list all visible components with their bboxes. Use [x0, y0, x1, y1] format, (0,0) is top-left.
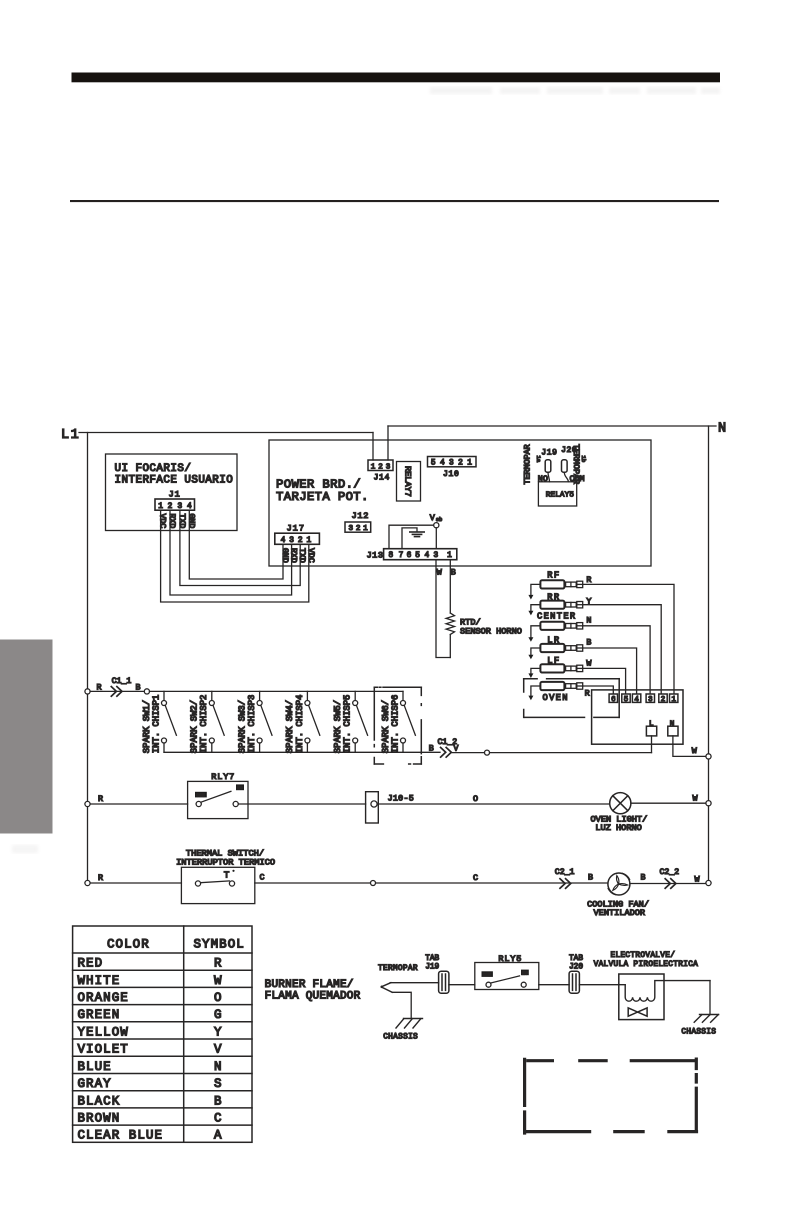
switch SPARK SW1 [162, 691, 177, 752]
svg-text:SENSOR HORNO: SENSOR HORNO [460, 626, 522, 636]
svg-text:W: W [437, 568, 443, 578]
switch SPARK SW6 [401, 691, 416, 752]
wire N to J14 pin3 [387, 426, 389, 460]
relay RLY5 NO tag [521, 970, 529, 976]
color table [73, 926, 252, 1142]
svg-text:J12: J12 [352, 511, 370, 521]
svg-text:RED: RED [78, 957, 104, 971]
wire J19 to RLY5 [449, 984, 475, 986]
svg-text:COLOR: COLOR [107, 938, 150, 952]
svg-text:RELAY5: RELAY5 [546, 491, 575, 499]
svg-text:B: B [136, 683, 141, 693]
svg-text:5: 5 [624, 696, 628, 704]
svg-text:BROWN: BROWN [78, 1112, 121, 1126]
connector C1_2 chevrons [441, 748, 452, 758]
svg-text:8: 8 [389, 552, 394, 560]
thermal switch contacts [195, 881, 200, 886]
wire spark top rail [150, 690, 404, 692]
terminal 5 [622, 694, 630, 702]
svg-text:BLACK: BLACK [78, 1094, 121, 1108]
svg-text:3: 3 [386, 463, 391, 471]
resistor RTD [446, 613, 454, 635]
relay RLY7 contacts [196, 801, 201, 806]
dashed enclosure OVEN [524, 679, 620, 718]
svg-text:6: 6 [611, 696, 615, 704]
switch SPARK SW2 [209, 691, 224, 752]
svg-text:3: 3 [449, 460, 454, 468]
lamp OVEN LIGHT [610, 793, 631, 814]
wire J20 to electrovalve [579, 984, 625, 986]
svg-text:CHASSIS: CHASSIS [681, 1028, 716, 1036]
wire RF to terminal [583, 584, 674, 694]
wire GND J1-J17 [189, 510, 283, 579]
wire fan to N [630, 883, 706, 885]
svg-text:R: R [585, 689, 590, 699]
svg-text:WHITE: WHITE [78, 974, 121, 988]
wire LR left to spark [531, 648, 540, 655]
svg-text:GND: GND [280, 548, 289, 563]
terminal block [592, 690, 683, 744]
svg-text:2: 2 [378, 463, 383, 471]
svg-text:W: W [692, 746, 698, 756]
svg-text:YELLOW: YELLOW [78, 1025, 129, 1039]
svg-text:LUZ HORNO: LUZ HORNO [595, 823, 641, 833]
wire N top [388, 425, 716, 427]
wire RXD J1-J17 [170, 510, 292, 595]
ground symbol power board [410, 532, 424, 537]
wire N terminal to bus [673, 736, 706, 757]
terminal TAB J19 [439, 971, 449, 993]
svg-text:B: B [451, 568, 456, 578]
node thermal junction [371, 881, 376, 886]
thermal switch blade [201, 881, 230, 883]
relay RLY5 box [475, 963, 539, 990]
wire L1 top [79, 432, 373, 434]
svg-text:C1_1: C1_1 [112, 677, 132, 686]
chassis ground right [694, 1015, 718, 1023]
svg-text:VDC: VDC [158, 514, 167, 529]
relay RELAY7 [397, 462, 421, 502]
svg-text:3: 3 [648, 696, 652, 704]
connector J10 [428, 457, 477, 467]
thermocouple arrow [381, 986, 384, 989]
wire lamp to N [631, 802, 706, 804]
wire electrovalve to chassis [709, 981, 711, 1015]
svg-text:sb: sb [436, 517, 442, 523]
relay RLY5 COM tag [482, 971, 493, 977]
svg-text:C: C [214, 1112, 222, 1126]
svg-text:INT. CHISP3: INT. CHISP3 [247, 695, 257, 754]
svg-text:O: O [214, 991, 222, 1005]
wire LF to terminal [583, 668, 626, 694]
svg-text:J10: J10 [443, 470, 460, 479]
dash-dot enclosure SW6 [374, 687, 421, 764]
svg-text:1: 1 [467, 460, 472, 468]
wire L terminal down [651, 736, 653, 753]
wire J10-5 to lamp [378, 803, 609, 805]
arrow CENTER [528, 637, 533, 642]
relay RLY7 blade [201, 791, 231, 802]
cooling fan motor [608, 873, 630, 895]
connector C1_1 chevrons [111, 687, 122, 697]
svg-text:CENTER: CENTER [537, 612, 576, 622]
wire RR left to spark [531, 605, 540, 612]
wire rly7 to J10-5 [238, 803, 365, 805]
svg-text:B: B [588, 873, 593, 883]
thermal switch box [181, 867, 254, 903]
wire J20 to RELAY5 [564, 472, 568, 482]
svg-text:R: R [214, 957, 222, 971]
connector C2_1 chevrons [560, 879, 571, 889]
terminal 1 [670, 694, 678, 702]
terminal 2 [659, 694, 667, 702]
svg-text:COM: COM [483, 972, 492, 978]
svg-text:5: 5 [431, 460, 436, 468]
terminal 4 [632, 694, 640, 702]
svg-text:RELAY7: RELAY7 [403, 466, 413, 497]
svg-text:RF: RF [547, 571, 560, 581]
svg-text:A: A [214, 1129, 222, 1143]
svg-text:J1: J1 [169, 490, 181, 500]
node N bus junction [706, 754, 711, 759]
svg-text:VALVULA PIROELECTRICA: VALVULA PIROELECTRICA [594, 961, 699, 969]
svg-text:4: 4 [634, 696, 639, 704]
svg-text:BLUE: BLUE [78, 1060, 112, 1074]
svg-text:4: 4 [281, 537, 286, 545]
svg-text:NO: NO [522, 970, 528, 976]
svg-text:RXD: RXD [167, 514, 176, 529]
wire CENTER to terminal [583, 626, 650, 694]
electrovalve box [619, 974, 664, 1020]
igniter RF [540, 580, 582, 588]
wire LF left to spark [531, 668, 540, 674]
svg-text:W: W [214, 974, 222, 988]
svg-text:ELECTROVALVE/: ELECTROVALVE/ [611, 952, 676, 960]
connector J17 [275, 533, 320, 544]
svg-text:1: 1 [671, 696, 676, 704]
svg-text:W: W [693, 794, 699, 804]
node N bus rly7 row [706, 801, 711, 806]
svg-text:TERMOPAR: TERMOPAR [523, 444, 533, 484]
svg-text:INTERFACE USUARIO: INTERFACE USUARIO [115, 475, 234, 487]
svg-text:TAB: TAB [569, 955, 583, 963]
connector J13 [384, 549, 457, 560]
svg-text:C2_2: C2_2 [660, 868, 680, 877]
svg-text:RXD: RXD [289, 548, 298, 563]
node L1 thermal row [85, 880, 90, 885]
svg-text:1: 1 [371, 463, 376, 471]
wire TXD J1-J17 [180, 510, 300, 585]
relay RELAY5 top [538, 482, 576, 506]
svg-text:TARJETA POT.: TARJETA POT. [276, 490, 369, 504]
svg-text:B: B [641, 873, 646, 883]
svg-text:TXD: TXD [177, 514, 186, 529]
svg-text:ORANGE: ORANGE [78, 991, 129, 1005]
svg-text:INT. CHISP4: INT. CHISP4 [295, 695, 305, 754]
relay RLY7 box [188, 781, 248, 818]
svg-text:J10-5: J10-5 [388, 794, 415, 804]
svg-text:1: 1 [306, 537, 311, 545]
svg-text:R: R [98, 794, 103, 804]
switch SPARK SW3 [257, 691, 272, 752]
arrow OVEN [528, 696, 533, 701]
svg-text:1: 1 [363, 525, 368, 533]
wire rly7 row left [90, 803, 188, 805]
wire Vsb rail [389, 525, 434, 549]
igniter RR [540, 601, 582, 609]
ghost page number [12, 845, 38, 853]
svg-text:INT. CHISP2: INT. CHISP2 [199, 695, 209, 754]
svg-text:2: 2 [298, 537, 303, 545]
connector J12 [345, 522, 371, 532]
svg-text:3: 3 [433, 552, 438, 560]
svg-text:L1: L1 [61, 428, 80, 443]
svg-text:J19: J19 [541, 449, 557, 458]
wire CENTER left to spark [531, 626, 540, 638]
relay RLY7 NO tag [236, 784, 244, 790]
svg-text:B: B [586, 637, 591, 647]
svg-text:4: 4 [440, 460, 445, 468]
svg-text:R: R [586, 575, 591, 585]
svg-text:SPARK SW6/: SPARK SW6/ [381, 700, 391, 753]
svg-text:VIOLET: VIOLET [78, 1043, 129, 1057]
svg-text:GND: GND [186, 514, 195, 529]
wire J13 pin7 ground branch [402, 528, 417, 549]
svg-text:UI FOCARIS/: UI FOCARIS/ [115, 463, 192, 475]
svg-text:C2_1: C2_1 [555, 868, 575, 877]
svg-text:O: O [473, 794, 478, 804]
chassis ground left [396, 1019, 423, 1029]
wire spark row left [90, 690, 144, 692]
node L1 rly7 row [85, 801, 90, 806]
svg-text:OVEN: OVEN [543, 693, 569, 703]
wire RLY5 to J20 [539, 984, 569, 986]
wire chassis drop left [392, 992, 411, 1018]
svg-text:J19: J19 [425, 963, 439, 971]
arrow RF [528, 595, 533, 600]
relay RLY5 contacts [486, 982, 491, 987]
igniter CENTER [540, 622, 582, 630]
svg-text:INT. CHISP1: INT. CHISP1 [151, 695, 161, 754]
wire J19 to RELAY5 [548, 472, 550, 482]
svg-text:TERMOPAR: TERMOPAR [378, 965, 418, 973]
node C1_2 junction [485, 750, 490, 755]
node Vsb terminal [434, 523, 439, 528]
svg-text:VDC: VDC [306, 548, 315, 563]
svg-text:V: V [214, 1043, 222, 1057]
svg-text:N: N [670, 720, 675, 728]
svg-text:INTERRUPTOR TERMICO: INTERRUPTOR TERMICO [176, 857, 275, 867]
svg-text:J20: J20 [569, 963, 583, 971]
wire thermocouple to J19 [390, 982, 438, 984]
electrovalve coil [625, 981, 710, 1002]
wire VDC J1-J17 [161, 510, 309, 602]
fan blades [613, 876, 628, 891]
arrow LF [528, 673, 533, 678]
svg-text:C: C [473, 873, 478, 883]
svg-text:L: L [649, 720, 654, 728]
svg-text:TAB: TAB [425, 955, 439, 963]
svg-text:INT. CHISP5: INT. CHISP5 [343, 695, 353, 754]
wire L1 to J14 pin1 [372, 433, 374, 461]
wire RR to terminal [583, 605, 662, 694]
wire Vsb to J13 pin3 [435, 528, 437, 549]
svg-text:5: 5 [415, 552, 420, 560]
terminal J19 [545, 460, 551, 472]
svg-text:Y: Y [214, 1025, 222, 1039]
wire thermal to fan [255, 882, 608, 884]
arrow LR [528, 655, 533, 660]
svg-text:SPARK SW4/: SPARK SW4/ [285, 700, 295, 753]
svg-text:3: 3 [289, 537, 294, 545]
svg-text:SPARK SW1/: SPARK SW1/ [142, 700, 152, 753]
terminal J20 [562, 460, 568, 472]
svg-text:INT. CHISP6: INT. CHISP6 [390, 695, 400, 754]
svg-text:4: 4 [424, 552, 429, 560]
wire C1_2 to L terminal [452, 752, 652, 754]
terminal 6 [609, 694, 617, 702]
electrovalve valve symbol [628, 1008, 647, 1016]
igniter LF [540, 664, 582, 672]
connector C2_2 chevrons [665, 879, 676, 889]
svg-text:T: T [224, 869, 230, 880]
igniter LR [540, 644, 582, 652]
svg-text:CLEAR BLUE: CLEAR BLUE [78, 1129, 164, 1143]
arrow RR [528, 611, 533, 616]
svg-text:N: N [214, 1060, 222, 1074]
switch SPARK SW4 [305, 691, 320, 752]
connector J10-5 [366, 792, 379, 823]
header thin rule [70, 200, 719, 202]
svg-text:RLY7: RLY7 [211, 772, 235, 782]
node N bus thermal row [706, 880, 711, 885]
svg-text:G: G [214, 1008, 222, 1022]
relay RLY7 COM tag [195, 792, 207, 798]
svg-text:CHASSIS: CHASSIS [383, 1034, 418, 1042]
svg-text:1: 1 [447, 552, 452, 560]
svg-text:SYMBOL: SYMBOL [194, 938, 245, 952]
wire N bus vertical [708, 426, 710, 883]
terminal 3 [646, 694, 654, 702]
header thick bar [72, 73, 721, 83]
relay RLY5 blade [491, 976, 520, 983]
igniter OVEN [540, 682, 582, 690]
svg-text:1b: 1b [580, 456, 587, 463]
terminal TAB J20 [569, 971, 579, 993]
svg-text:N: N [586, 616, 591, 626]
svg-text:NO: NO [237, 785, 243, 791]
svg-text:2: 2 [458, 460, 463, 468]
wire OVEN to terminal [583, 686, 614, 694]
wire W from J13 [436, 560, 450, 658]
wire thermal row left [90, 882, 181, 884]
power board box [269, 440, 651, 566]
svg-text:SPARK SW5/: SPARK SW5/ [333, 700, 343, 753]
svg-text:J17: J17 [287, 524, 305, 534]
svg-text:W: W [586, 658, 592, 668]
svg-text:2: 2 [356, 525, 361, 533]
svg-text:S: S [214, 1077, 222, 1091]
svg-text:J14: J14 [374, 474, 391, 483]
svg-text:J13: J13 [367, 551, 384, 561]
svg-text:V: V [430, 513, 435, 523]
connector J14 [368, 460, 393, 471]
svg-text:B: B [429, 744, 434, 754]
wire LR to terminal [583, 648, 637, 694]
UI board box [106, 454, 238, 531]
wire RF left to spark [531, 584, 540, 595]
svg-text:GREEN: GREEN [78, 1008, 121, 1022]
connector J1 [155, 499, 195, 510]
ghost strip under header [430, 87, 720, 94]
wire spark bottom rail [164, 751, 440, 753]
switch SPARK SW5 [353, 691, 368, 752]
node L1 spark row [85, 689, 90, 694]
node spark rail start [144, 689, 149, 694]
svg-text:N: N [718, 422, 726, 437]
svg-text:COM: COM [196, 792, 205, 798]
svg-text:SPARK SW3/: SPARK SW3/ [237, 700, 247, 753]
svg-text:B: B [214, 1094, 222, 1108]
svg-text:6: 6 [407, 552, 412, 560]
svg-text:C: C [260, 873, 265, 883]
svg-text:7: 7 [399, 552, 404, 560]
svg-text:GRAY: GRAY [78, 1077, 112, 1091]
svg-text:VENTILADOR: VENTILADOR [594, 908, 646, 918]
dashed box bottom [525, 1059, 697, 1133]
wire L1 bus vertical [87, 433, 89, 884]
wire OVEN left to spark [531, 686, 540, 696]
svg-text:FLAMA QUEMADOR: FLAMA QUEMADOR [265, 991, 361, 1003]
svg-text:NO: NO [538, 474, 548, 484]
svg-text:TXD: TXD [297, 548, 306, 563]
svg-text:3: 3 [349, 525, 354, 533]
svg-text:BURNER FLAME/: BURNER FLAME/ [265, 979, 354, 991]
wire B from J13 [449, 560, 451, 658]
gray side tab [0, 640, 53, 834]
svg-text:2: 2 [661, 696, 665, 704]
svg-text:SPARK SW2/: SPARK SW2/ [190, 700, 200, 753]
svg-text:R: R [98, 873, 103, 883]
